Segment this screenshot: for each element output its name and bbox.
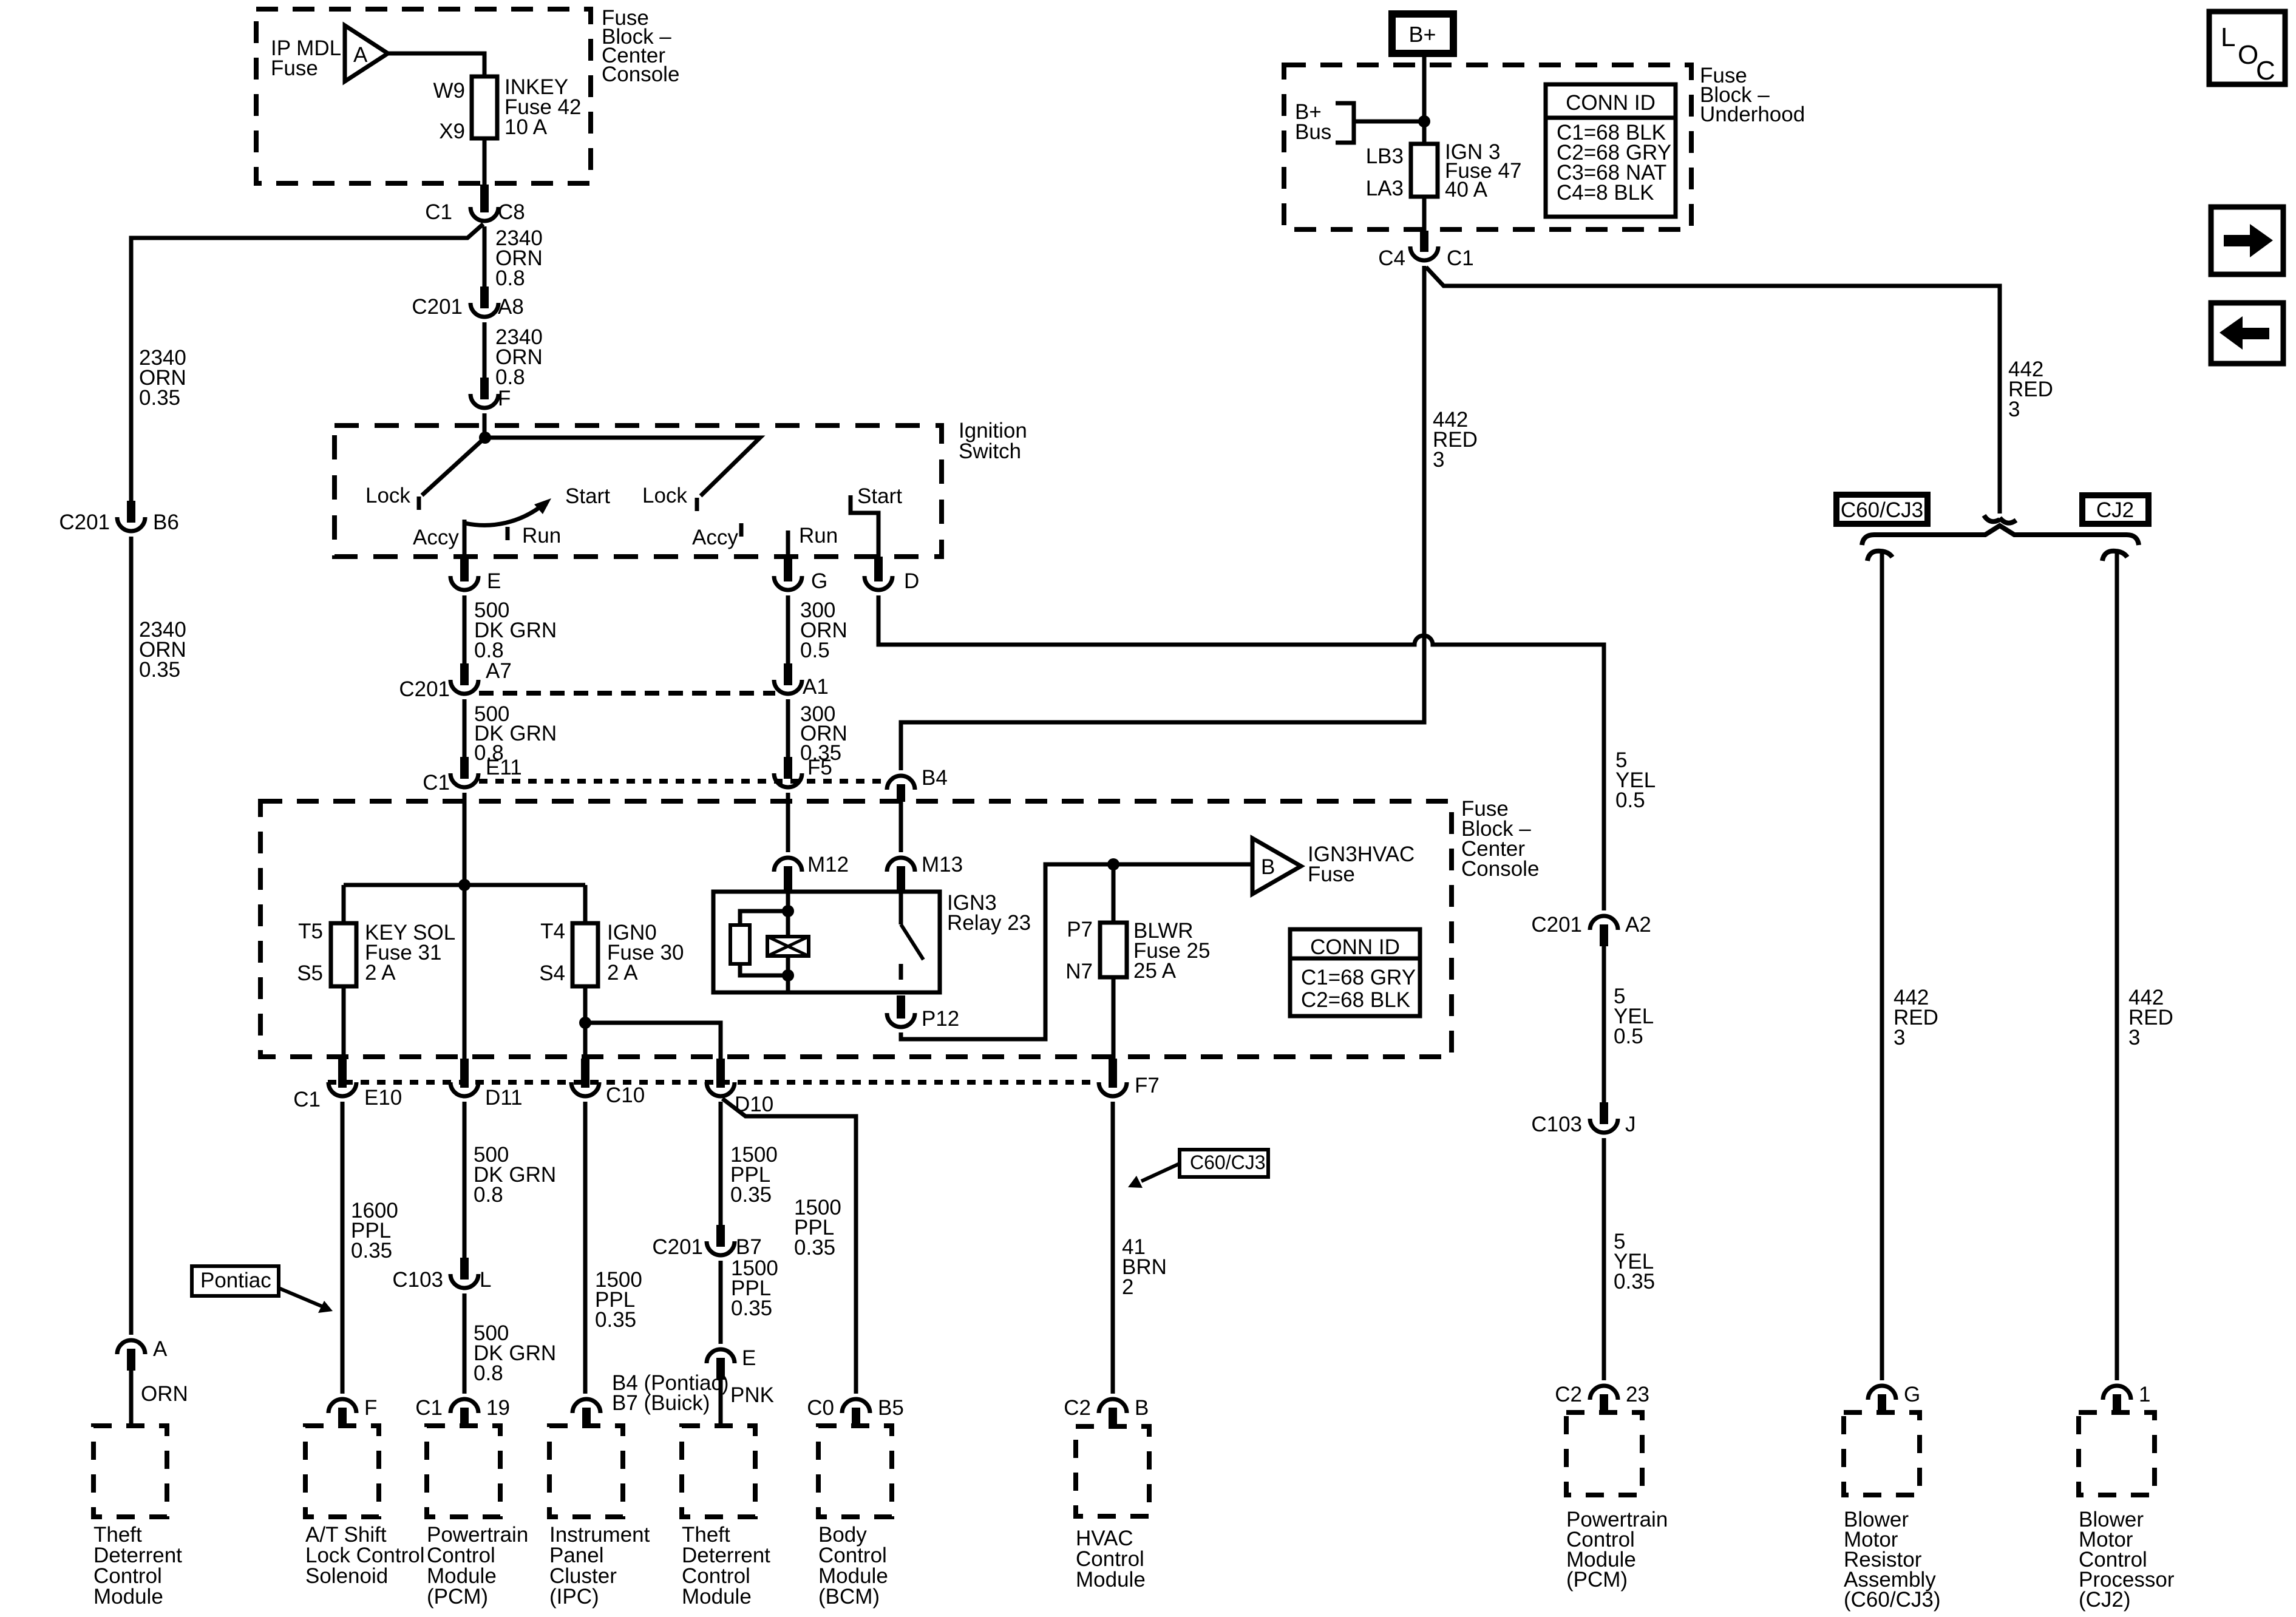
svg-text:C10: C10 [606, 1083, 645, 1107]
svg-text:T4: T4 [540, 920, 565, 943]
svg-text:P12: P12 [922, 1007, 959, 1031]
svg-text:A: A [353, 43, 368, 67]
svg-text:CONN ID: CONN ID [1310, 935, 1400, 959]
svg-text:0.35: 0.35 [794, 1236, 835, 1259]
svg-text:D: D [904, 569, 919, 593]
svg-text:C1: C1 [1447, 246, 1474, 270]
svg-text:0.35: 0.35 [730, 1183, 772, 1207]
svg-text:Fuse: Fuse [1308, 863, 1355, 886]
svg-text:2: 2 [1122, 1275, 1133, 1299]
svg-text:F7: F7 [1135, 1074, 1160, 1097]
svg-text:0.8: 0.8 [495, 266, 525, 290]
svg-text:Start: Start [857, 484, 902, 508]
svg-text:Pontiac: Pontiac [200, 1269, 271, 1292]
svg-text:B7: B7 [736, 1235, 762, 1259]
svg-text:S4: S4 [539, 961, 565, 985]
svg-text:25 A: 25 A [1133, 959, 1177, 983]
svg-text:Underhood: Underhood [1700, 103, 1805, 126]
svg-text:Solenoid: Solenoid [305, 1564, 388, 1588]
svg-text:Run: Run [799, 524, 838, 547]
svg-text:0.5: 0.5 [1615, 788, 1645, 812]
svg-text:Module: Module [93, 1585, 163, 1609]
svg-text:Fuse: Fuse [271, 56, 318, 80]
svg-text:C2: C2 [1064, 1396, 1091, 1420]
svg-text:C4: C4 [1378, 246, 1405, 270]
svg-text:(CJ2): (CJ2) [2079, 1588, 2131, 1612]
svg-text:W9: W9 [433, 79, 466, 103]
svg-text:Relay 23: Relay 23 [947, 911, 1031, 935]
svg-text:3: 3 [2128, 1026, 2140, 1049]
svg-text:G: G [811, 569, 827, 593]
svg-text:3: 3 [1433, 448, 1444, 472]
svg-text:Accy: Accy [692, 526, 738, 549]
svg-text:Run: Run [522, 524, 561, 547]
svg-text:19: 19 [486, 1396, 510, 1420]
svg-text:B5: B5 [878, 1396, 904, 1420]
svg-text:LA3: LA3 [1366, 177, 1404, 200]
svg-text:CONN ID: CONN ID [1566, 91, 1656, 115]
svg-text:(BCM): (BCM) [818, 1585, 880, 1609]
svg-text:0.35: 0.35 [351, 1239, 392, 1263]
svg-text:0.5: 0.5 [800, 639, 830, 662]
svg-text:F5: F5 [807, 756, 832, 779]
svg-text:C1=68 GRY: C1=68 GRY [1301, 966, 1416, 989]
svg-text:ORN: ORN [141, 1382, 188, 1406]
svg-text:C: C [2256, 56, 2275, 86]
svg-text:C103: C103 [1531, 1113, 1582, 1136]
svg-text:F: F [498, 387, 511, 410]
svg-text:Accy: Accy [413, 526, 459, 549]
svg-text:E: E [742, 1346, 756, 1370]
svg-text:Start: Start [565, 484, 610, 508]
svg-text:3: 3 [1894, 1026, 1905, 1049]
svg-text:3: 3 [2008, 398, 2020, 421]
svg-text:C60/CJ3: C60/CJ3 [1841, 498, 1923, 522]
svg-text:0.8: 0.8 [495, 365, 525, 389]
svg-text:M13: M13 [922, 853, 963, 876]
svg-text:2 A: 2 A [607, 961, 638, 985]
svg-text:C0: C0 [807, 1396, 834, 1420]
svg-text:40 A: 40 A [1445, 178, 1488, 202]
svg-text:E10: E10 [364, 1086, 402, 1110]
svg-text:C201: C201 [652, 1235, 703, 1259]
svg-text:C1: C1 [425, 200, 452, 224]
svg-text:C8: C8 [498, 200, 525, 224]
svg-text:Bus: Bus [1295, 120, 1331, 144]
svg-text:C201: C201 [59, 510, 110, 534]
svg-text:C2=68 BLK: C2=68 BLK [1301, 988, 1410, 1012]
svg-text:LB3: LB3 [1366, 144, 1404, 168]
svg-text:D11: D11 [485, 1086, 523, 1110]
svg-text:(PCM): (PCM) [1566, 1568, 1628, 1592]
svg-text:A: A [153, 1337, 168, 1361]
svg-text:0.35: 0.35 [731, 1297, 772, 1320]
svg-text:Console: Console [1461, 857, 1539, 881]
svg-text:C1: C1 [415, 1396, 443, 1420]
svg-text:23: 23 [1626, 1383, 1649, 1406]
svg-text:A1: A1 [803, 675, 829, 699]
svg-text:L: L [2221, 22, 2235, 52]
svg-text:0.35: 0.35 [1614, 1270, 1655, 1293]
svg-text:M12: M12 [807, 853, 849, 876]
svg-text:0.35: 0.35 [595, 1308, 636, 1332]
svg-text:Module: Module [682, 1585, 752, 1609]
svg-text:C1: C1 [423, 771, 450, 795]
svg-text:P7: P7 [1067, 918, 1093, 941]
svg-text:C1: C1 [293, 1088, 321, 1111]
svg-text:0.8: 0.8 [474, 1183, 503, 1207]
svg-text:B4: B4 [922, 766, 948, 790]
svg-text:CJ2: CJ2 [2096, 498, 2134, 522]
svg-text:1: 1 [2139, 1383, 2150, 1406]
svg-text:S5: S5 [297, 961, 323, 985]
svg-text:0.35: 0.35 [139, 386, 180, 410]
svg-text:F: F [364, 1396, 377, 1420]
svg-text:0.35: 0.35 [139, 658, 180, 682]
svg-text:B7 (Buick): B7 (Buick) [612, 1391, 710, 1415]
svg-text:B: B [1261, 855, 1275, 879]
svg-text:PNK: PNK [730, 1383, 774, 1407]
svg-text:E11: E11 [486, 756, 522, 779]
svg-text:(PCM): (PCM) [427, 1585, 488, 1609]
svg-text:C201: C201 [1531, 913, 1582, 937]
svg-text:0.5: 0.5 [1614, 1025, 1643, 1048]
svg-text:N7: N7 [1065, 960, 1093, 983]
svg-text:C4=8 BLK: C4=8 BLK [1557, 181, 1654, 205]
svg-text:A8: A8 [498, 295, 524, 319]
svg-text:G: G [1904, 1383, 1920, 1406]
svg-text:0.8: 0.8 [474, 1361, 503, 1385]
svg-text:B6: B6 [153, 510, 179, 534]
svg-text:B: B [1135, 1396, 1149, 1420]
svg-text:J: J [1625, 1113, 1636, 1136]
svg-text:B+: B+ [1408, 22, 1436, 47]
svg-text:Lock: Lock [365, 484, 410, 507]
svg-text:(IPC): (IPC) [549, 1585, 599, 1609]
svg-text:A2: A2 [1625, 913, 1651, 937]
svg-text:(C60/CJ3): (C60/CJ3) [1844, 1588, 1940, 1612]
svg-text:Switch: Switch [959, 439, 1021, 463]
svg-text:2 A: 2 A [365, 961, 396, 985]
svg-text:Console: Console [602, 63, 679, 86]
svg-text:C103: C103 [392, 1268, 443, 1292]
svg-text:A7: A7 [486, 659, 512, 683]
svg-text:X9: X9 [439, 120, 465, 143]
svg-text:Module: Module [1076, 1568, 1146, 1592]
svg-text:C2: C2 [1555, 1383, 1582, 1406]
svg-text:C201: C201 [412, 295, 463, 319]
svg-text:C60/CJ3: C60/CJ3 [1190, 1151, 1266, 1173]
svg-text:C201: C201 [399, 677, 450, 701]
svg-text:L: L [480, 1268, 491, 1292]
svg-text:10 A: 10 A [504, 115, 548, 139]
svg-text:E: E [487, 569, 501, 593]
svg-text:T5: T5 [298, 920, 323, 943]
svg-text:Lock: Lock [642, 484, 687, 507]
